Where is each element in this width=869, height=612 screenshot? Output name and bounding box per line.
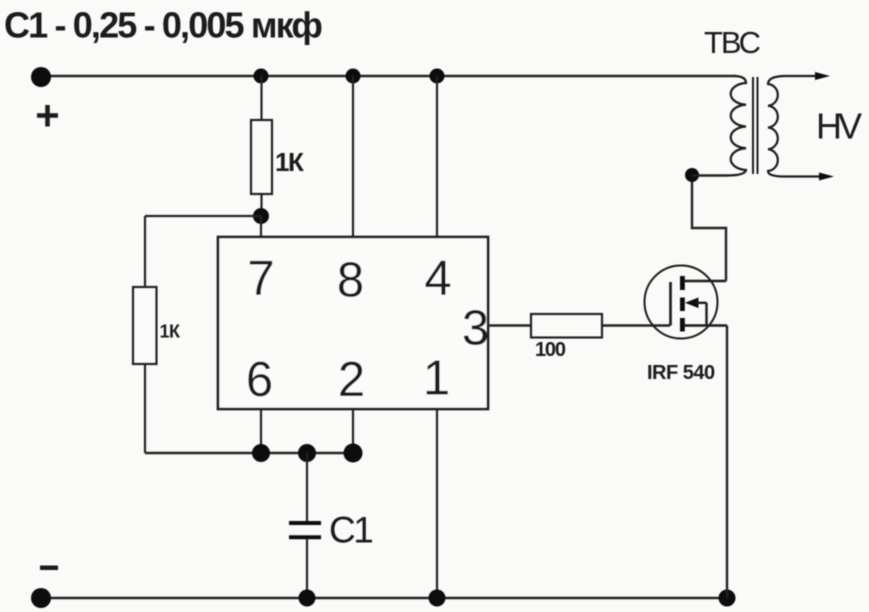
- IC U1 box: [218, 237, 488, 409]
- junction dot: top rail / pin 8: [346, 69, 361, 84]
- svg-text:3: 3: [462, 302, 489, 356]
- svg-text:1: 1: [423, 352, 450, 406]
- svg-text:С1 - 0,25 - 0,005 мкф: С1 - 0,25 - 0,005 мкф: [4, 5, 322, 46]
- transformer core: [752, 77, 754, 174]
- wire: source down to bottom rail: [726, 326, 728, 599]
- wire: pin 6: [260, 409, 262, 453]
- bottom rail wire (-): [41, 597, 727, 599]
- channel dash top: [680, 276, 685, 290]
- wire: pin 7 stub: [260, 216, 262, 237]
- svg-text:ТВС: ТВС: [704, 25, 761, 60]
- channel dash bottom: [680, 318, 685, 332]
- node dot: R1 bottom / pin 7 / left loop: [253, 208, 269, 224]
- svg-text:HV: HV: [816, 106, 862, 147]
- svg-text:1К: 1К: [275, 147, 304, 177]
- wire: pin 2: [352, 409, 354, 453]
- svg-text:2: 2: [338, 353, 365, 407]
- junction dot: bottom rail / pin 1: [429, 590, 446, 607]
- junction dot: bottom junction / pin 2: [344, 444, 363, 463]
- drain lead: [684, 280, 726, 282]
- wire: left loop vertical upper: [144, 216, 146, 287]
- junction dot: bottom junction / C1: [298, 444, 316, 462]
- wire: pin 8: [352, 76, 354, 237]
- svg-text:C1: C1: [329, 510, 372, 551]
- svg-text:4: 4: [424, 252, 451, 306]
- HV output arrow top: [815, 72, 830, 80]
- junction dot: bottom junction / pin 6: [252, 444, 270, 462]
- wire: node to left loop (horizontal): [145, 215, 261, 217]
- wire: drain up to transformer: [692, 175, 726, 281]
- wire: primary bottom lead: [692, 174, 727, 176]
- junction dot: primary bottom node: [685, 168, 699, 182]
- junction dot: bottom rail / MOSFET source: [719, 590, 736, 607]
- wire: pin 4: [436, 76, 438, 237]
- resistor R2 1K (left vertical): [133, 287, 157, 364]
- channel dash middle: [680, 298, 685, 312]
- wire: pin 1: [436, 409, 438, 598]
- minus terminal: [31, 588, 51, 608]
- gate bar: [669, 282, 672, 326]
- junction dot: top rail / pin 4: [430, 69, 445, 84]
- wire: R3 to gate: [602, 324, 670, 326]
- svg-text:1К: 1К: [160, 322, 182, 342]
- svg-text:8: 8: [337, 254, 364, 308]
- source lead: [684, 324, 727, 326]
- plus terminal: [31, 67, 51, 87]
- junction dot: bottom rail / C1: [299, 590, 316, 607]
- svg-text:6: 6: [246, 353, 273, 407]
- transformer T1 primary winding: [727, 76, 746, 176]
- svg-text:7: 7: [247, 252, 274, 306]
- svg-text:IRF 540: IRF 540: [647, 362, 715, 384]
- junction dot: top rail / R1: [254, 69, 269, 84]
- HV output arrow bottom: [819, 173, 834, 181]
- wire: pin 3 to R3: [488, 324, 531, 326]
- capacitor C1: [289, 453, 321, 598]
- transformer T1 secondary winding: [768, 76, 819, 177]
- resistor R1 1K (vertical): [251, 76, 272, 216]
- wire: left loop vertical lower: [144, 364, 146, 453]
- transistor Q1 MOSFET IRF 540: [645, 266, 728, 339]
- resistor R3 100 (horizontal): [531, 314, 602, 338]
- wire: bottom junction horizontal: [145, 452, 353, 454]
- top rail wire (+): [41, 75, 736, 77]
- svg-text:100: 100: [535, 339, 566, 361]
- body arrow: [685, 298, 699, 309]
- body circle: [645, 266, 718, 339]
